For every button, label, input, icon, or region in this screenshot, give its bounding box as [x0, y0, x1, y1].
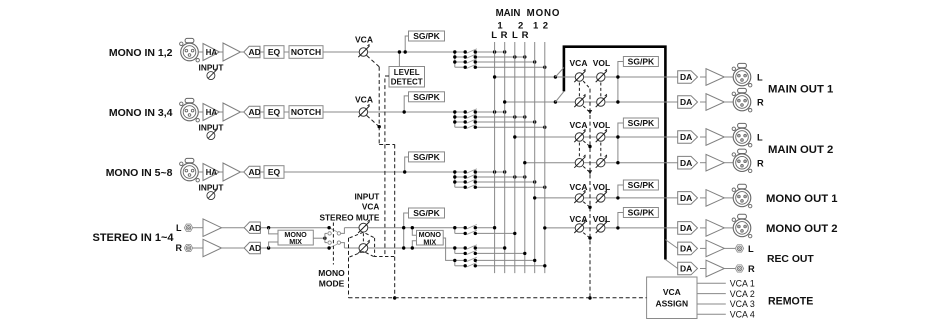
wire — [260, 111, 264, 113]
svg-text:MAIN OUT 2: MAIN OUT 2 — [768, 144, 833, 156]
svg-text:L: L — [176, 223, 182, 233]
wire — [260, 247, 329, 249]
dashed mute control chevron 1 — [350, 232, 375, 238]
wire SG/PK tap row2 — [404, 96, 408, 112]
wire — [724, 227, 733, 229]
svg-text:ASSIGN: ASSIGN — [656, 299, 689, 309]
output VCA (y=227.9) — [575, 224, 583, 232]
svg-text:HA: HA — [206, 108, 218, 117]
svg-text:SG/PK: SG/PK — [413, 31, 440, 41]
dashed mute control link — [362, 233, 364, 243]
wire MONO2 bus to output — [545, 227, 575, 229]
svg-text:R: R — [176, 243, 183, 253]
wire — [260, 227, 329, 229]
dashed link VCA-VCA — [578, 83, 580, 97]
svg-text:DA: DA — [680, 158, 692, 168]
wire — [220, 51, 224, 53]
output VCA (y=197.9) — [575, 194, 583, 202]
svg-text:INPUT: INPUT — [354, 192, 379, 202]
bus assign switches (row 1) — [453, 49, 546, 69]
stereo amplifier R — [203, 239, 222, 257]
svg-text:VCA: VCA — [355, 94, 373, 104]
output amplifier (row 1) — [706, 69, 724, 86]
svg-text:SG/PK: SG/PK — [628, 208, 655, 218]
phone jack R — [184, 244, 192, 251]
XLR output connector (row 2) — [732, 88, 752, 112]
svg-text:MIX: MIX — [423, 237, 436, 246]
wire — [193, 227, 203, 229]
wire mono-mix input L — [269, 228, 278, 234]
wire — [222, 247, 245, 249]
amplifier triangle (row 1) — [223, 43, 241, 61]
AD converter (stereo R) — [244, 242, 261, 253]
wire MAIN2 R bus to output — [525, 162, 575, 164]
output amplifier (row 6) — [706, 220, 724, 237]
svg-text:SG/PK: SG/PK — [413, 92, 440, 102]
wire through output row — [584, 227, 597, 229]
output group 1 VCA/VOL labels — [570, 58, 611, 68]
wire level-detect tap — [398, 52, 400, 67]
svg-text:DA: DA — [680, 97, 692, 107]
wire mono-mix output — [313, 237, 325, 239]
phono connector REC R — [735, 265, 743, 272]
wire MAIN2 L bus to output — [515, 136, 575, 138]
wire — [344, 227, 358, 229]
bus line MAIN1 L — [494, 42, 496, 273]
wire — [724, 136, 733, 138]
svg-text:R: R — [757, 158, 764, 168]
wire — [193, 247, 203, 249]
NOTCH filter (row 1) — [289, 46, 323, 59]
bus L/R labels — [491, 30, 528, 41]
wire SG/PK tap row1 — [405, 36, 408, 52]
wire — [198, 111, 203, 113]
phono connector REC L — [735, 245, 743, 252]
wire — [284, 111, 289, 113]
XLR output connector (row 3) — [732, 123, 752, 146]
svg-text:STEREO MUTE: STEREO MUTE — [319, 212, 379, 222]
wire — [198, 171, 203, 173]
DA converter (REC OUT R) — [678, 262, 698, 275]
dashed VCA assign bus — [349, 297, 647, 299]
svg-text:VCA 4: VCA 4 — [730, 310, 755, 320]
wire — [220, 111, 224, 113]
bus number labels — [497, 20, 548, 31]
wire MAIN1 R bus to output — [505, 101, 575, 103]
DA converter (output row 3) — [678, 131, 698, 144]
wire mono-mix2 output — [443, 238, 455, 260]
rec out feed diagonal R — [665, 260, 677, 269]
summing diagonal MAIN1 R — [555, 91, 564, 102]
wire to VCA — [323, 51, 359, 53]
remote line VCA 4 — [697, 313, 726, 315]
head amp HA (row 3) — [203, 164, 220, 181]
remote line VCA 3 — [697, 303, 726, 305]
output VOL (y=102) — [597, 98, 605, 106]
bus assign switches (row 2) — [453, 109, 546, 129]
XLR input connector J1 — [180, 38, 200, 62]
wire mono-mix2 input L — [412, 228, 416, 236]
svg-text:INPUT: INPUT — [199, 62, 224, 72]
output group 2 VCA/VOL labels — [570, 120, 611, 130]
svg-text:INPUT: INPUT — [199, 182, 224, 192]
svg-text:NOTCH: NOTCH — [291, 107, 321, 117]
dashed link VCA-VCA — [578, 143, 580, 158]
head amp HA (row 1) — [203, 44, 220, 61]
bus line MAIN2 R — [524, 42, 526, 273]
bus line MONO 1 — [534, 42, 536, 273]
remote line VCA 2 — [697, 293, 726, 295]
mono mode switch L — [325, 226, 345, 235]
DA converter (output row 5) — [678, 192, 698, 205]
wire — [198, 51, 203, 53]
stereo mute VCA R — [359, 244, 368, 253]
wire — [368, 227, 455, 229]
svg-text:VCA: VCA — [355, 34, 373, 44]
svg-text:L: L — [491, 30, 497, 41]
wire MAIN1 L bus to output — [495, 76, 575, 78]
rec out feed diagonal L — [665, 240, 677, 249]
dashed VCA assign control line — [589, 89, 591, 298]
svg-text:MIX: MIX — [289, 237, 302, 246]
wire — [241, 111, 244, 113]
svg-text:MONO IN 1,2: MONO IN 1,2 — [109, 47, 173, 59]
wire — [724, 101, 733, 103]
bus assign switches (mono mix) — [453, 257, 546, 267]
wire — [700, 247, 706, 249]
label INPUT VCA STEREO MUTE — [319, 192, 379, 223]
AD converter (row 2) — [244, 106, 261, 117]
dashed mute control chevron 2 — [350, 251, 375, 257]
SG/PK meter box (row 3) — [409, 152, 445, 162]
wire through output row — [584, 136, 597, 138]
svg-text:DA: DA — [680, 264, 692, 274]
stereo amplifier L — [203, 219, 222, 237]
svg-text:VCA: VCA — [362, 202, 380, 212]
output VOL (y=227.9) — [597, 224, 605, 232]
wire — [260, 171, 264, 173]
svg-text:VOL: VOL — [593, 120, 610, 130]
XLR output connector (row 4) — [732, 149, 752, 172]
svg-text:2: 2 — [543, 20, 548, 31]
svg-text:SG/PK: SG/PK — [628, 57, 655, 67]
svg-text:AD: AD — [248, 107, 260, 117]
wire to assign switches — [368, 111, 455, 113]
output amplifier (row 4) — [706, 154, 724, 171]
svg-text:L: L — [748, 244, 754, 254]
dashed diagonals to output VCAs — [583, 81, 592, 240]
DA converter (output row 6) — [678, 222, 698, 235]
DA converter (output row 4) — [678, 156, 698, 169]
svg-text:R: R — [748, 264, 755, 274]
MONO MIX block (stereo input) — [278, 230, 313, 245]
output amplifier (row 5) — [706, 190, 724, 207]
svg-text:SG/PK: SG/PK — [628, 180, 655, 190]
rec out amplifier L — [706, 240, 724, 257]
wire SG/PK tap — [618, 213, 624, 228]
dashed link VOL-VOL — [600, 143, 602, 158]
svg-text:R: R — [501, 30, 508, 41]
svg-text:R: R — [522, 30, 529, 41]
XLR input connector J3 — [180, 158, 200, 182]
wire — [222, 227, 245, 229]
AD converter (stereo L) — [244, 222, 261, 233]
dashed mute control right drop — [375, 238, 395, 257]
wire to VCA — [323, 111, 359, 113]
output VOL (y=137) — [597, 133, 605, 141]
svg-text:VCA 2: VCA 2 — [730, 289, 755, 299]
wire to assign switches — [284, 171, 455, 173]
svg-text:MONO IN 3,4: MONO IN 3,4 — [109, 107, 173, 119]
INPUT gain knob (row 1) — [199, 62, 224, 79]
wire — [700, 268, 706, 270]
wire — [700, 76, 706, 78]
svg-text:STEREO IN 1~4: STEREO IN 1~4 — [92, 232, 174, 244]
svg-text:REC OUT: REC OUT — [767, 254, 814, 265]
svg-text:REMOTE: REMOTE — [768, 296, 813, 308]
EQ block (row 1) — [264, 46, 284, 59]
wire through output row — [584, 197, 597, 199]
wire SG/PK tap — [618, 123, 624, 163]
svg-text:AD: AD — [249, 223, 261, 233]
wire through output row — [584, 76, 597, 78]
wire to assign switches — [368, 51, 455, 53]
wire — [724, 268, 735, 270]
mono mode switch R — [325, 241, 345, 250]
svg-text:SG/PK: SG/PK — [628, 118, 655, 128]
dashed control from LEVEL DETECT — [385, 76, 389, 257]
input VCA (row 2) — [355, 94, 373, 117]
EQ block (row 3) — [264, 166, 284, 179]
wire — [220, 171, 224, 173]
INPUT gain knob (row 2) — [199, 122, 224, 139]
wire — [700, 162, 706, 164]
LEVEL DETECT block — [389, 67, 425, 88]
svg-text:VCA 3: VCA 3 — [730, 299, 755, 309]
SG/PK meter box (row 2) — [409, 92, 445, 102]
wire — [368, 247, 455, 249]
svg-text:MONO OUT 2: MONO OUT 2 — [766, 223, 838, 235]
summing diagonal MAIN1 L — [555, 67, 564, 77]
output amplifier (row 2) — [706, 94, 724, 111]
SG/PK meter box (output) — [623, 208, 658, 218]
input VCA (row 1) — [355, 34, 373, 57]
dashed VCA control from row2 VCA — [367, 115, 380, 126]
svg-text:MODE: MODE — [319, 279, 345, 289]
wire mono-mix input R — [269, 242, 278, 248]
wire — [284, 51, 289, 53]
output VOL (y=197.9) — [597, 194, 605, 202]
svg-text:VCA: VCA — [663, 287, 681, 297]
wire — [241, 171, 244, 173]
svg-text:NOTCH: NOTCH — [291, 47, 321, 57]
bus line MONO 2 — [544, 42, 546, 273]
svg-text:L: L — [512, 30, 518, 41]
dashed link VOL-VOL — [600, 83, 602, 97]
XLR output connector (row 1) — [732, 63, 752, 87]
wire — [700, 227, 706, 229]
bus line MAIN2 L — [514, 42, 516, 273]
svg-text:MONO OUT 1: MONO OUT 1 — [766, 193, 838, 205]
bus assign switches (stereo R) — [453, 245, 526, 255]
svg-text:DA: DA — [680, 72, 692, 82]
svg-text:DA: DA — [680, 193, 692, 203]
dashed control bus C down to VCA assign bus — [394, 145, 396, 299]
svg-text:VOL: VOL — [593, 58, 610, 68]
dashed VCA control from row1 VCA — [367, 55, 380, 66]
rec out amplifier R — [706, 260, 724, 277]
wire SG/PK stereo tap — [404, 213, 409, 248]
svg-text:AD: AD — [248, 47, 260, 57]
svg-text:DA: DA — [680, 132, 692, 142]
dashed jog A to C — [379, 144, 395, 146]
INPUT gain knob (row 3) — [199, 182, 224, 199]
wire — [700, 136, 706, 138]
EQ block (row 2) — [264, 106, 284, 119]
wire — [260, 51, 264, 53]
svg-text:SG/PK: SG/PK — [413, 208, 440, 218]
wire SG/PK tap — [618, 185, 624, 198]
svg-text:VOL: VOL — [593, 182, 610, 192]
svg-text:SG/PK: SG/PK — [413, 152, 440, 162]
svg-text:MAIN OUT 1: MAIN OUT 1 — [768, 84, 833, 96]
wire — [700, 101, 706, 103]
dashed mute control left drop — [348, 238, 350, 298]
SG/PK meter box (output) — [623, 180, 658, 190]
MONO MIX block (to mono buses) — [417, 230, 444, 245]
svg-text:MAIN: MAIN — [496, 8, 521, 19]
wire — [241, 51, 244, 53]
svg-text:VCA: VCA — [570, 120, 588, 130]
svg-text:HA: HA — [206, 168, 218, 177]
bus assign switches (row 3) — [453, 169, 546, 189]
svg-text:L: L — [757, 133, 763, 143]
svg-text:MONO IN 5~8: MONO IN 5~8 — [106, 167, 173, 179]
svg-text:EQ: EQ — [268, 167, 281, 177]
svg-text:DETECT: DETECT — [391, 78, 423, 87]
svg-text:MONO: MONO — [527, 8, 561, 19]
XLR output connector (row 6) — [732, 214, 752, 238]
AD converter (row 1) — [244, 46, 261, 57]
wire — [724, 76, 733, 78]
wire mono-mix2 input R — [412, 241, 416, 248]
svg-text:MONO: MONO — [318, 268, 345, 278]
output VCA (y=137) — [575, 133, 583, 141]
amplifier triangle (row 3) — [223, 163, 241, 181]
DA converter (output row 1) — [678, 71, 698, 84]
wire — [724, 162, 733, 164]
bus line MAIN1 R — [504, 42, 506, 273]
output section thick border — [564, 47, 666, 260]
XLR input connector J2 — [180, 98, 200, 122]
svg-text:R: R — [757, 98, 764, 108]
svg-text:DA: DA — [680, 223, 692, 233]
output VCA (y=102) — [575, 98, 583, 106]
amplifier triangle (row 2) — [223, 103, 241, 121]
phone jack L — [184, 224, 192, 231]
output group 3 VCA/VOL labels — [570, 182, 611, 192]
svg-text:LEVEL: LEVEL — [394, 68, 420, 77]
bus assign switches (stereo L) — [453, 225, 516, 236]
svg-text:HA: HA — [206, 48, 218, 57]
svg-text:EQ: EQ — [268, 107, 281, 117]
output VOL (y=77) — [597, 73, 605, 81]
svg-text:DA: DA — [680, 244, 692, 254]
NOTCH filter (row 2) — [289, 106, 323, 119]
AD converter (row 3) — [244, 166, 261, 177]
svg-text:AD: AD — [248, 167, 260, 177]
wire mono feed split — [324, 233, 326, 242]
XLR output connector (row 5) — [732, 184, 752, 208]
wire SG/PK tap — [618, 62, 624, 103]
wire — [724, 197, 733, 199]
VCA ASSIGN block — [647, 277, 697, 319]
svg-text:EQ: EQ — [268, 47, 281, 57]
DA converter (output row 2) — [678, 96, 698, 109]
SG/PK meter box (output) — [623, 118, 658, 128]
SG/PK meter box (output) — [623, 57, 658, 67]
wire MONO1 bus to output — [535, 197, 575, 199]
svg-text:INPUT: INPUT — [199, 122, 224, 132]
wire — [344, 247, 358, 249]
wire — [724, 247, 735, 249]
head amp HA (row 2) — [203, 104, 220, 121]
dashed MONO MODE control — [332, 223, 334, 265]
svg-text:VOL: VOL — [593, 214, 610, 224]
svg-text:VCA 1: VCA 1 — [730, 279, 755, 289]
output VOL (y=162.7) — [597, 159, 605, 167]
output amplifier (row 3) — [706, 129, 724, 146]
DA converter (REC OUT L) — [678, 242, 698, 255]
wire — [700, 197, 706, 199]
dashed control bus A — [378, 67, 380, 145]
wire through output row — [584, 101, 597, 103]
SG/PK meter box (row 1) — [409, 31, 445, 41]
svg-text:VCA: VCA — [570, 58, 588, 68]
output group 4 VCA/VOL labels — [570, 214, 611, 224]
stereo mute VCA L — [359, 223, 368, 232]
remote line VCA 1 — [697, 282, 726, 284]
output VCA (y=162.7) — [575, 159, 583, 167]
svg-text:1: 1 — [533, 20, 539, 31]
svg-text:L: L — [757, 73, 763, 83]
wire through output row — [584, 162, 597, 164]
wire SG/PK tap row3 — [405, 157, 409, 172]
SG/PK meter box (stereo) — [409, 208, 445, 218]
output VCA (y=77) — [575, 73, 583, 81]
svg-text:AD: AD — [249, 243, 261, 253]
